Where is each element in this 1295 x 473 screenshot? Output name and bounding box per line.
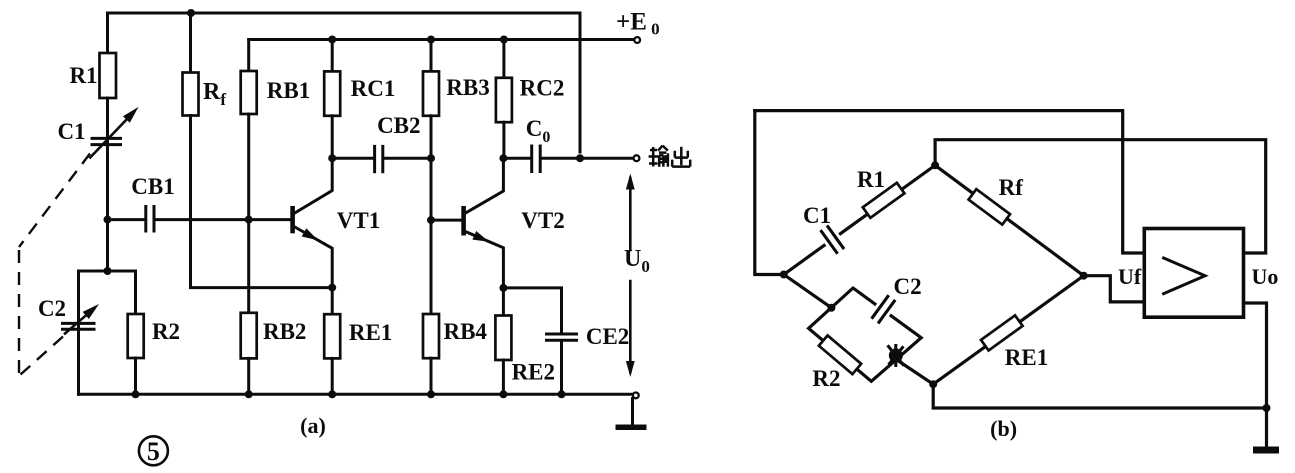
wire: left drop to left node bbox=[755, 111, 784, 275]
node: Uf node dot bbox=[1080, 272, 1088, 280]
VT1 collector lead bbox=[295, 158, 332, 213]
svg-text:RC1: RC1 bbox=[351, 76, 396, 101]
svg-text:U0: U0 bbox=[624, 246, 650, 276]
svg-text:C1: C1 bbox=[57, 119, 85, 144]
wire: top rail to op-amp upper input bbox=[755, 111, 1145, 253]
parallel block C2/R2 top wire bbox=[79, 270, 136, 273]
capacitor C1 (b) bbox=[818, 224, 848, 256]
node: VT1 base junction dot bbox=[245, 216, 253, 224]
svg-text:5: 5 bbox=[147, 437, 160, 466]
resistor RE1 bbox=[331, 288, 334, 315]
svg-text:R2: R2 bbox=[152, 319, 180, 344]
wire: RB3 bottom down to RB4 top (through VT2 base node) bbox=[430, 116, 433, 314]
node: VT2 emitter dot bbox=[499, 284, 507, 292]
wire: VT2 emitter to CE2 top bbox=[503, 288, 561, 333]
resistor RE2 bbox=[502, 288, 505, 316]
svg-text:RB2: RB2 bbox=[263, 319, 306, 344]
VT2 emitter lead bbox=[466, 232, 504, 288]
svg-text:(b): (b) bbox=[990, 416, 1017, 441]
svg-text:Rf: Rf bbox=[203, 79, 226, 109]
wire: VT2 base lead bbox=[431, 219, 461, 222]
capacitor C2 (variable) leg bbox=[77, 271, 80, 330]
svg-text:Rf: Rf bbox=[999, 175, 1024, 200]
wire: CB2 to RB3 line bbox=[384, 157, 431, 160]
U0 arrow (down) bbox=[629, 281, 632, 372]
svg-text:RC2: RC2 bbox=[520, 76, 565, 101]
VT1 emitter lead bbox=[295, 227, 332, 288]
wire: C1 bottom down to parallel-block top node bbox=[106, 146, 109, 271]
terminal: output open circle bbox=[634, 155, 640, 161]
svg-text:RE1: RE1 bbox=[349, 320, 392, 345]
resistor R1 (b) bbox=[863, 183, 905, 218]
resistor R1 bbox=[100, 53, 117, 98]
op-amp chevron symbol bbox=[1164, 258, 1205, 294]
wire: +E0 supply rail bbox=[249, 38, 635, 41]
ground symbol (a) bbox=[631, 399, 634, 425]
U0 arrow (up) bbox=[629, 178, 632, 250]
resistor Rf (b) bbox=[969, 189, 1010, 224]
node: parallel top junction dot bbox=[104, 267, 112, 275]
wire: RB1 bottom down to RB2 top (through base node) bbox=[247, 114, 250, 313]
svg-text:CB1: CB1 bbox=[131, 174, 174, 199]
node: junction dot Rf top on rail bbox=[187, 9, 195, 17]
resistor R2 (b) bbox=[819, 335, 861, 374]
wire: RC2 bottom to VT2 collector node bbox=[502, 122, 505, 158]
svg-text:CE2: CE2 bbox=[586, 324, 629, 349]
resistor R2 leg bbox=[134, 271, 137, 314]
svg-text:R1: R1 bbox=[857, 167, 885, 192]
capacitor C2 (b) bbox=[869, 293, 899, 325]
wire: Uf node to op-amp lower input bbox=[1084, 276, 1145, 302]
wire: blob to bottom node bbox=[896, 360, 933, 385]
svg-text:(a): (a) bbox=[300, 413, 326, 438]
node: left node dot bbox=[780, 271, 788, 279]
wire: collector node to C0 bbox=[503, 157, 530, 160]
node: top node dot bbox=[931, 161, 939, 169]
node: RC1 top dot bbox=[328, 36, 336, 44]
node: parallel entry dot bbox=[827, 304, 835, 312]
capacitor C1 (variable) bbox=[92, 138, 121, 144]
VT2 collector lead bbox=[466, 158, 504, 213]
resistor RC1 bbox=[331, 40, 334, 72]
node: VT2 collector dot bbox=[499, 154, 507, 162]
wire: collector node to CB2 bbox=[332, 157, 373, 160]
svg-text:Uo: Uo bbox=[1252, 264, 1279, 289]
resistor RB2 bbox=[241, 313, 257, 359]
arrow of variable capacitor C2 bbox=[65, 309, 93, 333]
transistor VT2 bbox=[461, 206, 466, 236]
resistor Rf bbox=[189, 13, 192, 73]
branch C1+R1 diagonal bbox=[784, 165, 935, 274]
ground rail (a) bbox=[79, 393, 633, 396]
dashed gang link line C1 to C2 bbox=[19, 154, 90, 375]
capacitor CB2 bbox=[375, 146, 383, 171]
node dots along ground rail bbox=[132, 390, 140, 398]
svg-text:RB1: RB1 bbox=[267, 78, 310, 103]
svg-text:R1: R1 bbox=[69, 63, 97, 88]
terminal: ground-side open circle bbox=[633, 393, 639, 399]
svg-text:RB4: RB4 bbox=[443, 319, 487, 344]
capacitor CB1 bbox=[146, 207, 154, 232]
svg-text:Uf: Uf bbox=[1118, 264, 1142, 289]
ground symbol (b) bbox=[1265, 408, 1268, 447]
resistor RB1 bbox=[247, 40, 250, 72]
node: bottom node dot bbox=[929, 380, 937, 388]
svg-text:+E 0: +E 0 bbox=[616, 9, 660, 39]
node: scribbled junction blob bbox=[889, 346, 904, 366]
branch RE1 diagonal bbox=[933, 276, 1083, 385]
node: feedback drop junction dot bbox=[576, 154, 584, 162]
wire: Rf bottom down to emitter wire, to RE1 top bbox=[191, 116, 333, 288]
resistor RB4 bbox=[423, 314, 439, 358]
figure number 5 circled bbox=[139, 436, 168, 465]
label 输出 (output) bbox=[649, 146, 691, 167]
wire: output feedback loop bbox=[935, 140, 1266, 253]
svg-text:C1: C1 bbox=[803, 203, 831, 228]
wire: left node to parallel block bbox=[784, 275, 832, 308]
svg-text:R2: R2 bbox=[812, 366, 840, 391]
resistor RB3 bbox=[430, 40, 433, 72]
VT2 emitter arrow bbox=[472, 231, 490, 246]
node: RC2 top dot bbox=[500, 36, 508, 44]
svg-text:VT2: VT2 bbox=[521, 208, 564, 233]
node: VT1 emitter dot bbox=[328, 284, 336, 292]
wire: op-amp output down to ground rail bbox=[1244, 303, 1267, 408]
capacitor CE2 bbox=[547, 334, 577, 340]
svg-text:RE2: RE2 bbox=[512, 360, 555, 385]
svg-text:C2: C2 bbox=[894, 274, 922, 299]
node: CB1 left junction dot bbox=[104, 216, 112, 224]
node: RB3 top dot bbox=[427, 36, 435, 44]
resistor RE1 (b) bbox=[981, 315, 1023, 350]
svg-text:C0: C0 bbox=[526, 116, 551, 146]
branch Rf diagonal bbox=[935, 165, 1084, 275]
wire: R1 bottom to C1 top plate bbox=[106, 98, 109, 146]
wire: bottom rail (b) bbox=[933, 384, 1266, 408]
arrow of variable capacitor C1 bbox=[90, 114, 131, 157]
parallel block C2/R2 parallelogram bbox=[809, 288, 922, 381]
wire: CB1 horizontal (left segment) bbox=[108, 218, 145, 221]
resistor RC2 bbox=[502, 40, 505, 78]
node: ground junction dot bbox=[1263, 404, 1271, 412]
op-amp U1 box bbox=[1144, 229, 1243, 318]
VT1 emitter arrow bbox=[302, 228, 321, 244]
wire: RC1 bottom to VT1 collector node bbox=[331, 116, 334, 158]
svg-text:RE1: RE1 bbox=[1005, 345, 1048, 370]
wire: top feedback rail from R1 top to output node drop bbox=[108, 13, 581, 152]
node: VT1 collector dot bbox=[328, 154, 336, 162]
node: CB2/RB3 junction dot bbox=[427, 154, 435, 162]
svg-text:RB3: RB3 bbox=[446, 75, 489, 100]
transistor VT1 bbox=[290, 206, 295, 233]
node: VT2 base junction dot bbox=[427, 216, 435, 224]
wire: CE2 bottom to ground rail bbox=[560, 342, 563, 395]
wire: CB1 to VT1 base (crosses Rf line, junction at RB line) bbox=[156, 218, 291, 221]
svg-text:VT1: VT1 bbox=[337, 208, 380, 233]
wire: C0 to output terminal bbox=[542, 157, 633, 160]
capacitor C0 bbox=[532, 146, 541, 172]
terminal: +E0 open circle bbox=[634, 37, 640, 43]
svg-text:C2: C2 bbox=[38, 296, 66, 321]
svg-text:CB2: CB2 bbox=[377, 113, 420, 138]
